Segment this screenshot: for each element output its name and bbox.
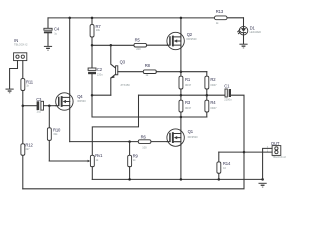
connector J1 IN	[10, 38, 28, 89]
capacitor C3	[36, 97, 56, 114]
resistor R14	[217, 152, 244, 179]
svg-text:OUT: OUT	[271, 141, 280, 146]
svg-text:220u: 220u	[97, 73, 103, 77]
svg-text:R11: R11	[26, 79, 34, 84]
svg-text:ZTX450: ZTX450	[121, 83, 131, 87]
transistor Q2 (MOSFET)	[167, 18, 197, 72]
svg-text:C3: C3	[36, 97, 42, 102]
resistor R5	[134, 37, 167, 51]
svg-text:Q3: Q3	[120, 60, 126, 65]
resistor R3	[179, 95, 192, 117]
svg-text:R14: R14	[223, 161, 231, 166]
connector J2 OUT	[244, 141, 286, 180]
resistor R4	[205, 95, 217, 117]
wire node A (R7 bottom to R5)	[91, 44, 134, 47]
LED D1	[238, 18, 261, 44]
svg-text:Q2: Q2	[187, 32, 193, 37]
wire mid rail east segment (to R1 R2 bottoms and C1)	[139, 94, 226, 97]
svg-text:R6: R6	[141, 135, 147, 140]
svg-text:2200u: 2200u	[224, 98, 232, 102]
svg-text:C4: C4	[54, 27, 60, 32]
svg-text:R4: R4	[210, 100, 216, 105]
svg-text:Q4: Q4	[77, 94, 83, 99]
resistor R11	[21, 79, 34, 106]
ground at OUT	[259, 183, 267, 188]
svg-text:IRF9530: IRF9530	[187, 37, 198, 41]
resistor R1	[179, 72, 192, 96]
svg-text:Rv1: Rv1	[95, 153, 103, 158]
resistor R2	[205, 72, 217, 96]
resistor R13	[215, 9, 244, 25]
svg-text:R13: R13	[216, 9, 224, 14]
ground below IN	[6, 89, 14, 94]
wire top positive rail	[48, 17, 215, 20]
svg-text:D1: D1	[250, 25, 256, 30]
resistor R6	[138, 135, 151, 150]
svg-text:100: 100	[142, 146, 147, 150]
wire rail A ground rail	[92, 178, 264, 181]
resistor R8	[118, 63, 207, 77]
wire input bias node	[22, 104, 37, 107]
svg-text:0R47: 0R47	[185, 83, 192, 87]
svg-text:R10: R10	[53, 127, 61, 132]
wire source net to Q1 gate	[70, 140, 167, 143]
pot RV1	[49, 153, 103, 180]
svg-text:IN: IN	[14, 38, 18, 43]
svg-text:R1: R1	[185, 77, 191, 82]
svg-text:R12: R12	[25, 143, 33, 148]
capacitor C2	[88, 45, 103, 95]
svg-text:220: 220	[136, 47, 141, 51]
resistor R7	[90, 18, 101, 45]
wire V2 output to RV1 top loop	[92, 95, 138, 155]
ground below C4	[44, 46, 52, 51]
svg-text:R3: R3	[185, 100, 191, 105]
ground below D1	[239, 44, 247, 49]
svg-text:2u2: 2u2	[37, 110, 42, 114]
transistor Q4 (MOSFET)	[56, 18, 87, 142]
svg-text:R8: R8	[145, 63, 151, 68]
svg-text:IRF9530: IRF9530	[188, 135, 199, 139]
svg-text:10k: 10k	[96, 28, 101, 32]
wire output loop V1 and lower horizontal	[92, 95, 207, 118]
wire mid rail west segment (C2 to Q3 emitter)	[91, 94, 111, 97]
svg-text:0R47: 0R47	[185, 106, 192, 110]
svg-text:33k: 33k	[53, 132, 58, 136]
svg-text:C1: C1	[224, 84, 230, 89]
resistor R12	[21, 106, 34, 189]
svg-text:4k7: 4k7	[25, 147, 30, 151]
capacitor C4	[44, 18, 60, 46]
svg-text:TBLOCK-I2: TBLOCK-I2	[14, 42, 28, 46]
svg-text:TBLOCK-I2: TBLOCK-I2	[272, 155, 286, 159]
transistor Q3	[111, 45, 131, 95]
svg-text:R9: R9	[133, 153, 139, 158]
svg-text:IRF530: IRF530	[77, 99, 86, 103]
svg-text:0R47: 0R47	[210, 83, 217, 87]
svg-text:R2: R2	[210, 77, 216, 82]
svg-text:Q1: Q1	[188, 129, 194, 134]
wire feedback rail B	[23, 151, 245, 189]
resistor R10	[47, 106, 61, 161]
svg-text:0R47: 0R47	[210, 106, 217, 110]
transistor Q1 (MOSFET)	[167, 117, 198, 179]
svg-text:LED-RED: LED-RED	[250, 30, 262, 34]
resistor R9	[128, 142, 139, 180]
svg-text:R5: R5	[135, 37, 141, 42]
capacitor C1	[224, 84, 244, 152]
svg-text:C2: C2	[97, 67, 103, 72]
